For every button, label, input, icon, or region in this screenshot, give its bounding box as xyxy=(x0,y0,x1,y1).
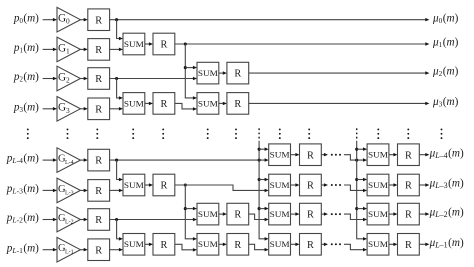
svg-text:R: R xyxy=(307,150,314,161)
wire R L-2 jog to SUM3 L-2 lower input xyxy=(249,214,269,221)
svg-text:L-4: L-4 xyxy=(65,160,74,166)
label muL-3(m) xyxy=(429,178,464,191)
svg-text:SUM: SUM xyxy=(270,239,290,249)
arrow SUM L-1 to R xyxy=(145,243,153,247)
svg-text:pL-3(m): pL-3(m) xyxy=(6,183,39,196)
label p1(m) xyxy=(13,42,39,55)
svg-text:R: R xyxy=(405,240,412,251)
adder SUM3 L-1 xyxy=(269,234,291,256)
arrow SUM2 row2 to R xyxy=(219,71,227,75)
gain GL-3 xyxy=(57,178,80,203)
input arrow row L-3 xyxy=(43,189,57,193)
svg-text:R: R xyxy=(307,240,314,251)
wire row2 output to mu2 xyxy=(249,71,430,75)
input arrow row2 xyxy=(43,77,57,80)
register R row3 xyxy=(88,98,110,120)
input arrow row L-4 xyxy=(43,158,57,162)
svg-text:R: R xyxy=(160,99,167,110)
register R row0 xyxy=(88,9,110,31)
svg-text:μ0(m): μ0(m) xyxy=(432,12,459,25)
register R row3 stage3 xyxy=(227,93,249,115)
wire JL3 jog to SUM3 L-3 lower input xyxy=(175,185,269,192)
svg-text:R: R xyxy=(160,240,167,251)
svg-text:R: R xyxy=(234,210,241,221)
svg-text:p2(m): p2(m) xyxy=(13,71,39,84)
register R row1 xyxy=(88,39,110,61)
V2 branch to final SUM L-3 upper xyxy=(355,178,367,181)
adder SUM3 L-4 xyxy=(269,144,291,166)
svg-text:R: R xyxy=(160,40,167,51)
register R row2 stage3 xyxy=(227,62,249,84)
svg-text:SUM: SUM xyxy=(124,98,144,108)
arrow SUM01 to R xyxy=(145,42,153,46)
adder SUM3 L-2 xyxy=(269,203,291,225)
wire R row2 to SUM2 row2 lower input xyxy=(110,77,198,80)
junction V2 on row L-4 line xyxy=(355,159,358,162)
svg-text:R: R xyxy=(234,240,241,251)
arrow SUM L-3 to R xyxy=(145,183,153,187)
svg-text:R: R xyxy=(307,181,314,192)
ellipsis dots row L-4 xyxy=(331,154,341,156)
svg-text:G: G xyxy=(58,102,66,114)
svg-text:pL-2(m): pL-2(m) xyxy=(6,212,39,225)
arrow G2 to R xyxy=(80,77,87,80)
label pL-2(m) xyxy=(6,212,39,225)
register R L-1 stage3 xyxy=(227,234,249,256)
svg-text:SUM: SUM xyxy=(368,150,388,160)
arrow R L-4 into ellipsis xyxy=(321,153,328,157)
arrow R L-2 into ellipsis xyxy=(321,212,328,216)
arrow R L-1 into ellipsis xyxy=(321,243,328,247)
arrow SUM2 L-1 to R xyxy=(219,243,227,247)
adder SUM2 row2 xyxy=(197,62,219,84)
adder SUM01 xyxy=(123,33,145,55)
svg-text:R: R xyxy=(160,181,167,192)
ellipsis dots row L-2 xyxy=(331,213,341,215)
input arrow row L-2 xyxy=(43,218,57,221)
wire R row3 stage2 jog to SUM2 row3 lower input xyxy=(175,103,197,110)
wire row0 output to mu0 xyxy=(110,18,430,22)
vertical ellipsis R1 column xyxy=(96,128,98,139)
wire row L-2 line to SUM2 lower input xyxy=(110,218,198,221)
label p0(m) xyxy=(13,12,39,25)
svg-text:SUM: SUM xyxy=(198,239,218,249)
output arrow mu L-2 xyxy=(419,212,429,216)
adder SUM2 L-2 xyxy=(197,203,219,225)
svg-text:SUM: SUM xyxy=(198,209,218,219)
adder SUM2 row3 xyxy=(197,93,219,115)
adder SUM L-4/L-3 xyxy=(123,174,145,196)
input arrow row1 xyxy=(43,48,57,52)
svg-text:R: R xyxy=(95,45,102,56)
gain GL-4 xyxy=(57,148,80,173)
adder SUM L-2/L-1 xyxy=(123,234,145,256)
vertical ellipsis R2 column xyxy=(162,128,164,139)
svg-text:SUM: SUM xyxy=(368,209,388,219)
label pL-3(m) xyxy=(6,183,39,196)
label muL-4(m) xyxy=(429,147,464,160)
ellipsis dots row L-3 xyxy=(331,184,341,186)
vertical ellipsis R3 column xyxy=(235,128,237,139)
svg-text:R: R xyxy=(405,210,412,221)
svg-text:G: G xyxy=(58,42,66,54)
arrow final SUM L-4 to R xyxy=(389,153,398,157)
svg-text:L-1: L-1 xyxy=(65,250,74,256)
V2 branch to final SUM L-2 upper xyxy=(355,207,367,211)
junction J1a branch to SUM2 row2 upper xyxy=(184,66,197,70)
svg-text:R: R xyxy=(95,215,102,226)
label pL-1(m) xyxy=(6,242,39,255)
input arrow row L-1 xyxy=(43,248,57,252)
wire J0 down to SUM01 upper input xyxy=(117,20,123,41)
wire R row L-1 to SUM lower input xyxy=(110,248,124,252)
svg-text:SUM: SUM xyxy=(368,239,388,249)
junction J2 xyxy=(115,77,118,80)
feed wire V2 into final SUM column xyxy=(357,141,367,241)
wire row L-4 line to SUM3 lower input xyxy=(110,158,269,162)
wire JL4 down to SUM L-4/L-3 upper input xyxy=(117,160,123,181)
arrow final SUM L-3 to R xyxy=(389,183,398,187)
register R L-3 final xyxy=(398,174,420,196)
svg-text:SUM: SUM xyxy=(124,239,144,249)
gain G0 xyxy=(57,7,80,32)
adder SUM2 L-1 xyxy=(197,234,219,256)
svg-text:pL-4(m): pL-4(m) xyxy=(6,153,39,166)
arrow G3 to R xyxy=(80,107,87,111)
V2 branch to final SUM L-4 upper xyxy=(355,147,367,151)
svg-text:L-3: L-3 xyxy=(65,190,74,196)
register R row L-1 xyxy=(88,239,110,261)
register R L-3 stage4 xyxy=(300,174,322,196)
input arrow row3 xyxy=(43,107,57,111)
dotted continuation of feed line V1 xyxy=(258,128,260,140)
arrow GL-3 to R xyxy=(80,189,87,193)
svg-text:SUM: SUM xyxy=(270,180,290,190)
label mu0(m) xyxy=(432,12,459,25)
arrow SUM3 L-1 to R xyxy=(290,243,299,247)
register R row L-3 stage2 xyxy=(153,174,175,196)
arrow GL-1 to R xyxy=(80,248,87,252)
svg-text:L-2: L-2 xyxy=(65,219,74,225)
register R L-2 final xyxy=(398,203,420,225)
vertical ellipsis SUM4 column xyxy=(377,128,379,139)
V1 branch to SUM3 L-4 upper xyxy=(258,147,269,151)
vertical ellipsis SUM3 column xyxy=(279,128,281,139)
vertical ellipsis p column xyxy=(27,128,29,139)
svg-text:SUM: SUM xyxy=(368,180,388,190)
V1 branch to SUM3 L-3 upper xyxy=(258,178,269,181)
vertical ellipsis SUM2 column xyxy=(207,128,209,139)
wire JL3 down feeding SUM2 L-2 and L-1 xyxy=(185,185,197,241)
register R L-4 final xyxy=(398,144,420,166)
gain G2 xyxy=(57,66,80,91)
svg-text:R: R xyxy=(405,150,412,161)
gain G3 xyxy=(57,97,80,122)
junction JL2 xyxy=(115,218,118,221)
svg-text:R: R xyxy=(95,156,102,167)
svg-text:μ3(m): μ3(m) xyxy=(432,96,459,109)
register R row L-3 xyxy=(88,180,110,202)
svg-text:2: 2 xyxy=(66,76,70,85)
junction V1 on row L-4 line xyxy=(258,159,261,162)
svg-text:G: G xyxy=(58,71,66,83)
svg-text:SUM: SUM xyxy=(198,68,218,78)
svg-text:R: R xyxy=(234,99,241,110)
svg-text:R: R xyxy=(405,181,412,192)
adder SUM23 xyxy=(123,93,145,115)
svg-text:p0(m): p0(m) xyxy=(13,12,39,25)
wire J2 down to SUM23 upper input xyxy=(117,79,123,100)
svg-text:R: R xyxy=(95,245,102,256)
input arrow row0 xyxy=(43,18,57,22)
svg-text:R: R xyxy=(95,15,102,26)
svg-text:μ1(m): μ1(m) xyxy=(432,37,459,50)
wire J1 down feeding SUM2 row2 and row3 xyxy=(185,44,197,100)
adder final SUM L-4 xyxy=(367,144,389,166)
wire R L-1 stage2 jog to SUM2 L-1 lower input xyxy=(175,244,197,251)
svg-text:μ2(m): μ2(m) xyxy=(432,66,459,79)
register R row L-4 xyxy=(88,149,110,171)
wire resume jog to final SUM L-1 lower input xyxy=(344,244,367,251)
svg-text:R: R xyxy=(95,104,102,115)
gain GL-2 xyxy=(57,207,80,232)
junction JL3 xyxy=(184,183,187,186)
svg-text:SUM: SUM xyxy=(124,180,144,190)
junction JL3a branch to SUM2 L-2 upper xyxy=(184,207,197,211)
wire row3 output to mu3 xyxy=(249,102,430,106)
junction J0 xyxy=(115,18,118,21)
svg-text:pL-1(m): pL-1(m) xyxy=(6,242,39,255)
label muL-1(m) xyxy=(429,237,464,250)
svg-text:SUM: SUM xyxy=(124,39,144,49)
svg-text:R: R xyxy=(95,186,102,197)
wire resume jog to final SUM L-3 lower input xyxy=(344,185,367,192)
adder final SUM L-1 xyxy=(367,234,389,256)
svg-text:R: R xyxy=(95,74,102,85)
output arrow mu L-4 xyxy=(419,153,429,157)
wire R row L-3 to SUM lower input xyxy=(110,189,124,193)
arrow SUM2 L-2 to R xyxy=(219,212,227,216)
vertical ellipsis R4 column xyxy=(308,128,310,139)
wire row1 output to mu1 xyxy=(175,42,430,46)
arrow G1 to R xyxy=(80,48,87,52)
arrow SUM23 to R xyxy=(145,102,153,106)
arrow SUM2 row3 to R xyxy=(219,102,227,106)
wire R row3 to SUM23 lower input xyxy=(110,107,124,111)
feed wire V1 into SUM3 column xyxy=(259,141,269,241)
arrow final SUM L-2 to R xyxy=(389,212,398,216)
label p3(m) xyxy=(13,101,39,114)
register R L-4 stage4 xyxy=(300,144,322,166)
register R L-2 stage3 xyxy=(227,203,249,225)
wire R L-1 jog to SUM3 L-1 lower input xyxy=(249,244,269,251)
arrow G0 to R xyxy=(80,18,87,22)
label mu3(m) xyxy=(432,96,459,109)
register R row L-2 xyxy=(88,209,110,231)
arrow R L-3 into ellipsis xyxy=(321,183,328,187)
svg-text:p1(m): p1(m) xyxy=(13,42,39,55)
wire R row1 to SUM01 lower input xyxy=(110,48,124,52)
output arrow mu L-3 xyxy=(419,183,429,187)
register R L-1 stage4 xyxy=(300,234,322,256)
vertical ellipsis output label column xyxy=(441,128,443,139)
adder final SUM L-3 xyxy=(367,174,389,196)
register R L-2 stage4 xyxy=(300,203,322,225)
arrow SUM3 L-3 to R xyxy=(290,183,299,187)
svg-text:SUM: SUM xyxy=(270,209,290,219)
arrow GL-2 to R xyxy=(80,218,87,221)
vertical ellipsis SUM1 column xyxy=(132,128,134,139)
gain GL-1 xyxy=(57,237,80,262)
svg-text:G: G xyxy=(58,13,66,25)
svg-text:R: R xyxy=(307,210,314,221)
register R row L-1 stage2 xyxy=(153,234,175,256)
svg-text:R: R xyxy=(234,69,241,80)
svg-text:1: 1 xyxy=(66,46,70,55)
ellipsis dots row L-1 xyxy=(331,243,341,245)
arrow SUM3 L-4 to R xyxy=(290,153,299,157)
svg-text:SUM: SUM xyxy=(198,98,218,108)
dotted continuation of feed line V2 xyxy=(356,128,358,140)
svg-text:0: 0 xyxy=(66,17,70,26)
register R L-1 final xyxy=(398,234,420,256)
junction JL4 xyxy=(115,159,118,162)
label mu2(m) xyxy=(432,66,459,79)
V1 branch to SUM3 L-2 upper xyxy=(258,207,269,211)
vertical ellipsis R5 column xyxy=(407,128,409,139)
register R row1 stage2 xyxy=(153,33,175,55)
gain G1 xyxy=(57,37,80,62)
adder final SUM L-2 xyxy=(367,203,389,225)
svg-text:3: 3 xyxy=(66,106,70,115)
arrow final SUM L-1 to R xyxy=(389,243,398,247)
svg-text:SUM: SUM xyxy=(270,150,290,160)
wire resume jog to final SUM L-2 lower input xyxy=(344,214,367,221)
output arrow mu L-1 xyxy=(419,243,429,247)
label pL-4(m) xyxy=(6,153,39,166)
wire JL2 down to SUM L-2/L-1 upper input xyxy=(117,220,123,241)
label p2(m) xyxy=(13,71,39,84)
junction J1 xyxy=(184,42,187,45)
label muL-2(m) xyxy=(429,207,464,220)
svg-text:p3(m): p3(m) xyxy=(13,101,39,114)
arrow GL-4 to R xyxy=(80,158,87,162)
register R row3 stage2 xyxy=(153,93,175,115)
wire resume jog to final SUM L-4 lower input xyxy=(344,155,367,162)
adder SUM3 L-3 xyxy=(269,174,291,196)
label mu1(m) xyxy=(432,37,459,50)
vertical ellipsis G column xyxy=(67,128,69,139)
register R row2 xyxy=(88,68,110,90)
arrow SUM3 L-2 to R xyxy=(290,212,299,216)
